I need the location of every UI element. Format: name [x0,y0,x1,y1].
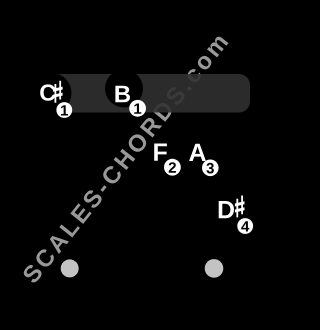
label C [40,84,55,100]
label A [189,144,206,161]
note dot B [105,70,143,108]
label D [219,201,234,218]
watermark SCALES-CHORDS.com [21,33,228,285]
open string dot left [61,259,79,277]
label B [115,86,130,103]
sharp of D# [235,196,245,218]
finger badge 1 (B) [129,100,146,117]
finger badge 3 (A) [202,160,219,177]
open string dot right [205,259,224,278]
label F [154,144,167,161]
note dot C# [32,73,72,113]
finger badge 4 (D#) [237,218,253,234]
sharp of C# [53,81,63,103]
barre bar [46,74,250,113]
finger badge 2 (F) [164,159,181,176]
finger badge 1 (C#) [56,102,72,118]
